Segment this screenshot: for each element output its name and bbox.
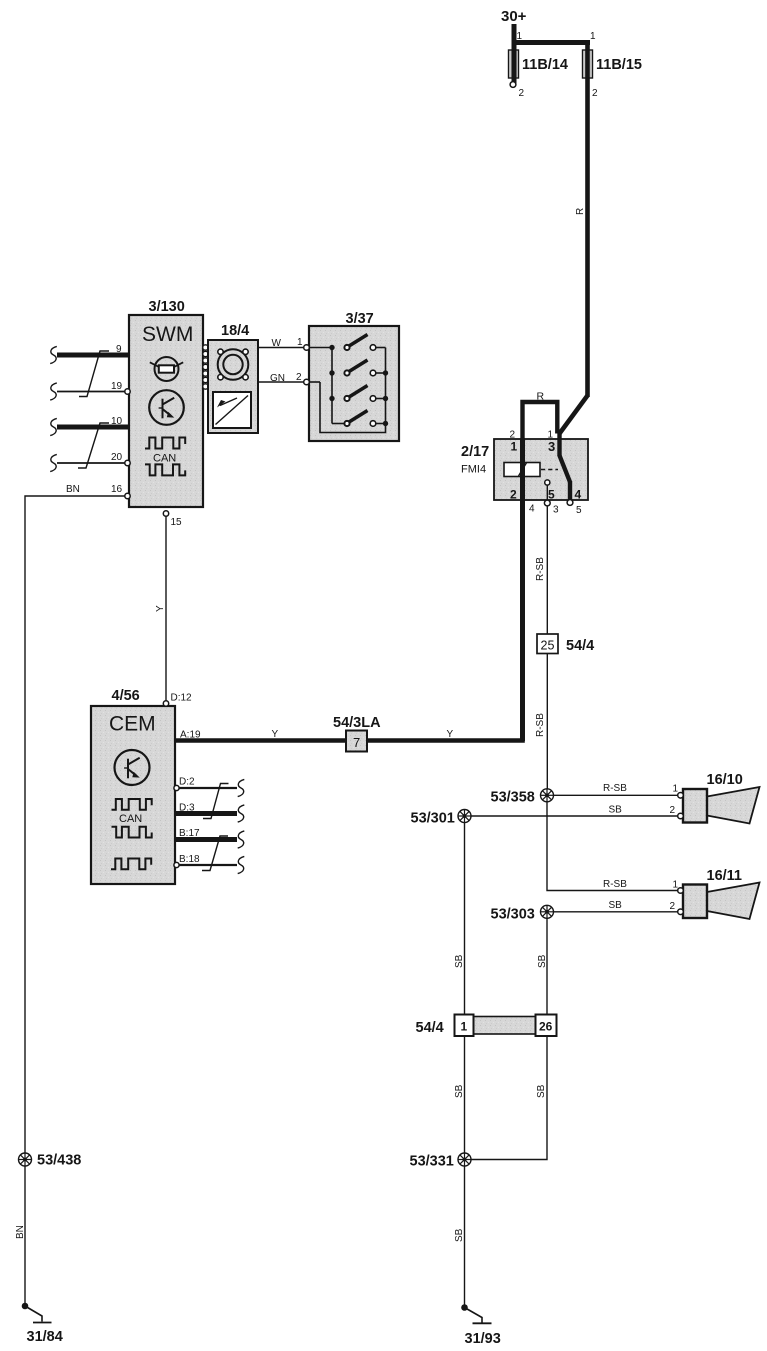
switch 4 in 3/37	[344, 411, 388, 427]
timer symbol inside CEM	[115, 750, 150, 785]
svg-text:CAN: CAN	[119, 813, 142, 825]
svg-text:FMI4: FMI4	[461, 464, 486, 476]
svg-text:53/303: 53/303	[491, 907, 535, 923]
twisted-pair marker D:2/D:3	[203, 784, 229, 819]
pin D:3 wire (thick, cut end)	[175, 811, 237, 816]
svg-text:4/56: 4/56	[112, 688, 140, 704]
internal wiring 3/37 left bus	[309, 348, 345, 424]
svg-text:9: 9	[116, 344, 122, 355]
svg-text:31/93: 31/93	[465, 1331, 501, 1347]
cut squiggle pin 9	[50, 346, 57, 363]
ground 31/93	[461, 1304, 491, 1323]
horn symbol inside SWM	[150, 357, 183, 381]
svg-text:2: 2	[670, 901, 676, 912]
svg-text:19: 19	[111, 381, 123, 392]
wire SB from 53/331 to ground 31/93	[464, 1166, 466, 1306]
wire SB to horn 16/11 pin 2	[554, 911, 679, 913]
svg-text:53/358: 53/358	[491, 790, 535, 806]
cut squiggle B:18	[238, 856, 245, 873]
svg-text:R: R	[537, 391, 545, 403]
svg-text:GN: GN	[270, 373, 285, 384]
svg-text:53/438: 53/438	[37, 1153, 81, 1169]
svg-text:25: 25	[541, 639, 555, 653]
pin 10 wire (thick stub, cut end)	[57, 425, 129, 430]
wire relay coil feed through box	[520, 438, 525, 741]
svg-text:SB: SB	[536, 1084, 547, 1098]
svg-text:16/11: 16/11	[707, 868, 743, 884]
svg-text:11B/15: 11B/15	[596, 57, 642, 73]
svg-text:5: 5	[548, 488, 555, 502]
terminal pin 2 of 11B/14	[510, 82, 516, 88]
twisted-pair marker B:17/B:18	[202, 836, 228, 871]
internal wiring 3/37 right bus and pin2 path	[309, 348, 386, 433]
wire W from 18/4 to 3/37 pin 1	[258, 347, 304, 349]
svg-text:SB: SB	[537, 954, 548, 968]
svg-text:16: 16	[111, 484, 123, 495]
relay pin 5 contact (NO, unused)	[544, 480, 550, 506]
wire 30+ vertical feed	[512, 24, 517, 84]
wire R-SB to horn 16/10 pin 1	[554, 794, 679, 796]
svg-text:D:12: D:12	[171, 693, 193, 704]
svg-text:54/3LA: 54/3LA	[333, 715, 381, 731]
inline connector 25 / 54/4	[537, 634, 558, 654]
svg-text:CAN: CAN	[153, 453, 176, 465]
svg-text:7: 7	[353, 735, 360, 750]
relay switch contact	[559, 433, 573, 505]
wire BN from SWM pin 16	[25, 496, 129, 1304]
junction 53/303	[541, 905, 554, 918]
svg-text:3: 3	[553, 505, 559, 516]
svg-text:1: 1	[673, 784, 679, 795]
svg-text:53/331: 53/331	[410, 1154, 454, 1170]
svg-text:D:3: D:3	[179, 803, 195, 814]
svg-text:54/4: 54/4	[566, 638, 594, 654]
pin D:2 wire (cut end)	[175, 787, 237, 789]
wire Y from CEM pin A:19 to relay (thick horizontal)	[175, 738, 525, 743]
pin 9 wire (thick stub, cut end)	[57, 353, 129, 358]
svg-text:CEM: CEM	[109, 713, 156, 736]
cut squiggle B:17	[238, 831, 245, 848]
wire R-SB from 53/358 down to horn 16/11	[547, 802, 678, 891]
svg-text:B:17: B:17	[179, 828, 200, 839]
svg-text:11B/14: 11B/14	[522, 57, 568, 73]
svg-text:R-SB: R-SB	[603, 879, 627, 890]
wire loop relay pin 1 to pin 3	[523, 402, 558, 440]
svg-text:1: 1	[297, 337, 303, 348]
svg-text:3/130: 3/130	[149, 299, 185, 315]
ground 31/84	[22, 1303, 52, 1323]
timer symbol inside SWM	[149, 390, 184, 425]
pin 15 of SWM	[163, 511, 168, 516]
clockspring coil between SWM and 18/4	[202, 344, 208, 389]
wire R-SB from relay pin 3 down	[546, 506, 548, 789]
pin 2 of 3/37	[304, 379, 310, 385]
svg-text:SB: SB	[609, 805, 623, 816]
pin 20 wire (cut end)	[57, 462, 129, 464]
svg-text:SB: SB	[454, 1084, 465, 1098]
svg-text:2: 2	[296, 372, 302, 383]
svg-text:SWM: SWM	[142, 323, 193, 346]
svg-text:1: 1	[517, 31, 523, 42]
svg-text:3/37: 3/37	[346, 311, 374, 327]
cut squiggle D:2	[238, 779, 245, 796]
svg-text:5: 5	[576, 505, 582, 516]
relay coil	[504, 463, 540, 477]
twisted-pair marker pins 10/20	[78, 423, 109, 468]
pin B:17 wire (thick, cut end)	[175, 837, 237, 842]
junction 53/331	[458, 1153, 471, 1166]
wire GN from 18/4 to 3/37 pin 2	[258, 381, 304, 383]
wire top bus horizontal	[512, 40, 590, 45]
switch 3 in 3/37	[329, 386, 388, 402]
svg-text:18/4: 18/4	[221, 323, 249, 339]
junction 53/358	[541, 789, 554, 802]
dashed actuator link	[541, 469, 558, 471]
svg-text:R-SB: R-SB	[535, 557, 546, 581]
svg-text:16/10: 16/10	[707, 772, 743, 788]
svg-text:53/301: 53/301	[411, 811, 455, 827]
pin D:12 of CEM	[163, 701, 168, 706]
svg-text:1: 1	[461, 1020, 468, 1034]
pin 1 of 3/37	[304, 345, 310, 351]
svg-text:2: 2	[510, 488, 517, 502]
wire SB to horn 16/10 pin 2	[471, 815, 678, 817]
svg-text:2: 2	[592, 88, 598, 99]
fuse 11B/14	[509, 50, 519, 82]
switch 2 in 3/37	[329, 360, 388, 376]
svg-text:1: 1	[590, 31, 596, 42]
switch 1 in 3/37	[329, 335, 385, 351]
svg-text:Y: Y	[447, 729, 454, 740]
junction 53/301	[458, 810, 471, 823]
wire Y from SWM pin 15 to CEM D:12	[165, 516, 167, 701]
svg-text:SB: SB	[609, 900, 623, 911]
wire SB from 53/301 down to 54/4 pin 1	[464, 823, 466, 1016]
module SWM 3/130 box	[129, 315, 203, 507]
svg-text:2/17: 2/17	[461, 444, 489, 460]
cut squiggle pin 20	[50, 454, 57, 471]
svg-text:R-SB: R-SB	[535, 713, 546, 737]
svg-text:BN: BN	[66, 484, 80, 495]
svg-text:D:2: D:2	[179, 777, 195, 788]
svg-text:4: 4	[575, 488, 582, 502]
pin B:18 wire (cut end)	[175, 864, 237, 866]
module CEM 4/56 box	[91, 706, 175, 884]
CAN symbol inside SWM	[145, 438, 185, 476]
svg-text:Y: Y	[155, 605, 166, 612]
svg-text:10: 10	[111, 416, 123, 427]
wire R diagonal into relay pin 3	[560, 396, 588, 434]
svg-text:BN: BN	[15, 1225, 26, 1239]
svg-text:3: 3	[548, 439, 555, 454]
svg-text:31/84: 31/84	[27, 1329, 63, 1345]
svg-text:2: 2	[670, 805, 676, 816]
horn button symbol inside 18/4	[218, 349, 249, 380]
horn 16/10	[678, 772, 760, 824]
relay 2/17 box	[494, 439, 588, 500]
module 18/4 horn contact box	[208, 340, 258, 433]
fuse 11B/15	[583, 50, 593, 78]
svg-text:Y: Y	[272, 729, 279, 740]
svg-text:SB: SB	[454, 1228, 465, 1242]
wire SB below 54/4 pin 1	[464, 1036, 466, 1153]
svg-text:W: W	[272, 338, 282, 349]
svg-text:30+: 30+	[501, 8, 527, 25]
contact symbol inside 18/4	[213, 392, 251, 428]
svg-text:R-SB: R-SB	[603, 783, 627, 794]
cut squiggle pin 10	[50, 418, 57, 435]
svg-text:15: 15	[171, 517, 183, 528]
wire SB from 53/303 down to 54/4 pin 26	[546, 918, 548, 1015]
svg-text:SB: SB	[454, 954, 465, 968]
CAN symbol inside CEM	[111, 799, 152, 869]
svg-text:2: 2	[519, 88, 525, 99]
svg-text:4: 4	[529, 504, 535, 515]
svg-text:R: R	[575, 208, 586, 215]
switch pack 3/37 box	[309, 326, 399, 441]
wire R from fuse 11B/15 down to relay	[585, 40, 590, 397]
svg-text:54/4: 54/4	[416, 1020, 444, 1036]
svg-text:26: 26	[539, 1020, 553, 1034]
cut squiggle D:3	[238, 805, 245, 822]
svg-text:1: 1	[511, 440, 518, 454]
horn 16/11	[678, 868, 760, 919]
svg-text:20: 20	[111, 452, 123, 463]
cut squiggle pin 19	[50, 383, 57, 400]
wire SB below 54/4 pin 26 to 53/331	[471, 1036, 547, 1160]
svg-text:A:19: A:19	[180, 730, 201, 741]
twisted-pair marker pins 9/19	[79, 351, 109, 397]
svg-text:B:18: B:18	[179, 854, 200, 865]
pin 19 wire (cut end)	[57, 391, 129, 393]
junction 53/438	[19, 1153, 32, 1166]
